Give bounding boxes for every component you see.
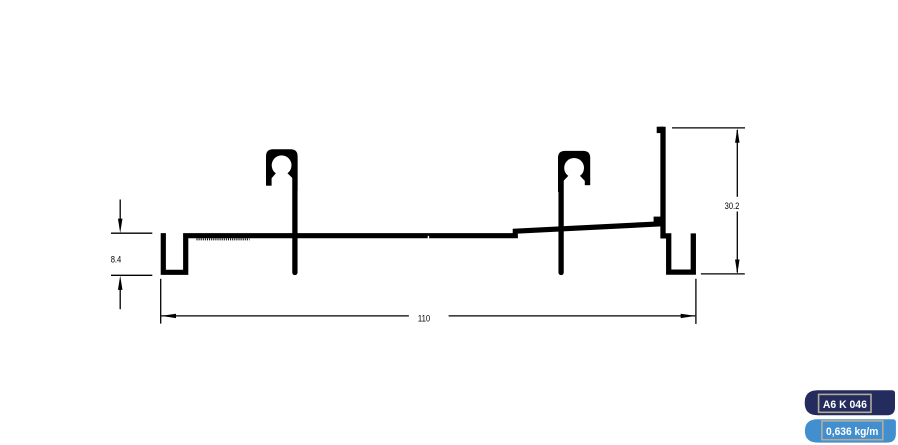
svg-text:30.2: 30.2 (725, 201, 740, 212)
dim 110 arrow right (681, 314, 696, 318)
svg-text:A6 K 046: A6 K 046 (823, 399, 867, 411)
web notch (428, 236, 429, 239)
hook 2 stem (558, 160, 563, 273)
svg-text:110: 110 (418, 314, 430, 325)
badge navy inner frame (819, 394, 871, 412)
hook 2 circular hole (564, 158, 584, 178)
fin top tick (657, 127, 664, 133)
hook 1 stem (292, 158, 297, 273)
dim 30.2 arrow down (735, 260, 740, 275)
dim 8.4 lower leader line (119, 288, 121, 309)
fin junction bump (654, 217, 661, 224)
hook 1 arch (266, 149, 298, 190)
profile left U-channel and bottom web (163, 224, 661, 272)
dim 8.4 lower arrow (118, 276, 123, 290)
hook 1 left leg trim (264, 186, 273, 193)
dim 8.4 upper leader line (119, 200, 121, 222)
dim 30.2 extension line bottom (701, 273, 745, 275)
dim 8.4 extension line top (111, 232, 152, 234)
dim 8.4 extension line bottom (111, 274, 152, 276)
dim 8.4 upper arrow (118, 219, 123, 234)
dim 110 arrow left (161, 314, 176, 318)
hook 2 neck and channel opening (564, 166, 585, 194)
dim 30.2 line upper segment (736, 130, 738, 197)
dim 30.2 arrow up (735, 128, 740, 143)
badge navy A6 K 046 (805, 390, 895, 415)
svg-text:8.4: 8.4 (111, 254, 122, 265)
dim 110 line right segment (449, 315, 696, 317)
dim 30.2 extension line top (672, 127, 745, 129)
hook 2 right leg trim (584, 185, 592, 194)
badge blue inner frame (822, 421, 883, 440)
knurl serration under web (197, 238, 250, 240)
hook 1 neck and channel opening (272, 164, 293, 192)
right vertical fin and right U-channel (663, 127, 693, 272)
dim 30.2 line lower segment (736, 212, 738, 273)
badge blue 0,636 kg/m (805, 419, 896, 442)
dim 110 extension line right (695, 279, 697, 324)
hook 1 circular hole (272, 155, 292, 175)
hook 2 arch (558, 151, 590, 192)
dim 110 extension line left (160, 279, 162, 324)
dim 110 line left segment (161, 315, 409, 317)
svg-text:0,636 kg/m: 0,636 kg/m (826, 426, 878, 438)
